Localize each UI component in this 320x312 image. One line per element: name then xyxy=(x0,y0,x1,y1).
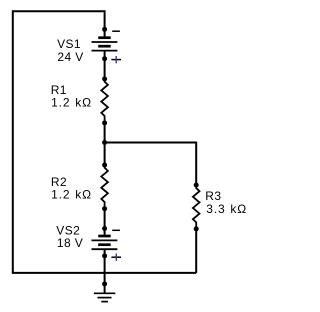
svg-text:18 V: 18 V xyxy=(57,236,83,250)
plus sign VS1 xyxy=(111,56,121,63)
label R2 1.2 kohm xyxy=(51,175,92,201)
label R3 3.3 kohm xyxy=(205,189,247,216)
node ground junction xyxy=(102,281,107,286)
node junction A xyxy=(102,140,107,145)
node R3 bottom xyxy=(194,226,199,231)
svg-text:VS1: VS1 xyxy=(57,37,81,51)
node R2 bottom xyxy=(102,206,107,211)
wire VS1 top stub xyxy=(104,29,106,37)
svg-text:1.2 kΩ: 1.2 kΩ xyxy=(51,95,92,109)
wire VS2 top stub xyxy=(104,229,106,237)
wire junction to R2 xyxy=(104,143,106,166)
node VS1 positive terminal xyxy=(102,56,107,61)
ground xyxy=(94,293,115,301)
battery VS2 xyxy=(92,236,118,249)
wire main column top segment xyxy=(104,10,106,29)
wire R3 to bottom xyxy=(195,229,197,273)
wire right branch down to R3 xyxy=(195,142,197,185)
svg-text:R3: R3 xyxy=(205,189,221,203)
wire VS2 bottom stub xyxy=(104,249,106,256)
node VS2 negative terminal xyxy=(102,226,107,231)
minus sign VS1 xyxy=(112,30,120,32)
node R1 top xyxy=(102,76,107,81)
label VS2 18 V xyxy=(56,224,83,251)
node VS1 negative terminal xyxy=(102,27,107,32)
svg-text:24 V: 24 V xyxy=(57,50,83,64)
wire VS1 to R1 xyxy=(104,59,106,79)
wire junction to right branch xyxy=(105,142,197,144)
resistor R1 xyxy=(101,79,108,123)
resistor R2 xyxy=(101,165,108,209)
svg-text:3.3 kΩ: 3.3 kΩ xyxy=(206,202,247,216)
node R2 top xyxy=(102,163,107,168)
label VS1 24 V xyxy=(57,37,84,64)
node VS2 positive terminal xyxy=(102,253,107,258)
minus sign VS2 xyxy=(112,229,120,231)
resistor R3 xyxy=(193,185,200,229)
svg-text:1.2 kΩ: 1.2 kΩ xyxy=(51,187,92,201)
wire VS2 to ground xyxy=(104,256,106,284)
node R1 bottom xyxy=(102,120,107,125)
plus sign VS2 xyxy=(111,254,121,261)
node R3 top xyxy=(194,183,199,188)
wire left xyxy=(12,10,14,273)
battery VS1 xyxy=(92,38,118,51)
wire R1 to junction xyxy=(104,123,106,143)
label R1 1.2 kohm xyxy=(51,83,92,109)
wire VS1 bottom stub xyxy=(104,51,106,59)
wire ground stub xyxy=(104,284,106,293)
wire R2 to VS2 xyxy=(104,209,106,229)
wire bottom xyxy=(12,272,196,274)
wire top xyxy=(13,10,105,12)
